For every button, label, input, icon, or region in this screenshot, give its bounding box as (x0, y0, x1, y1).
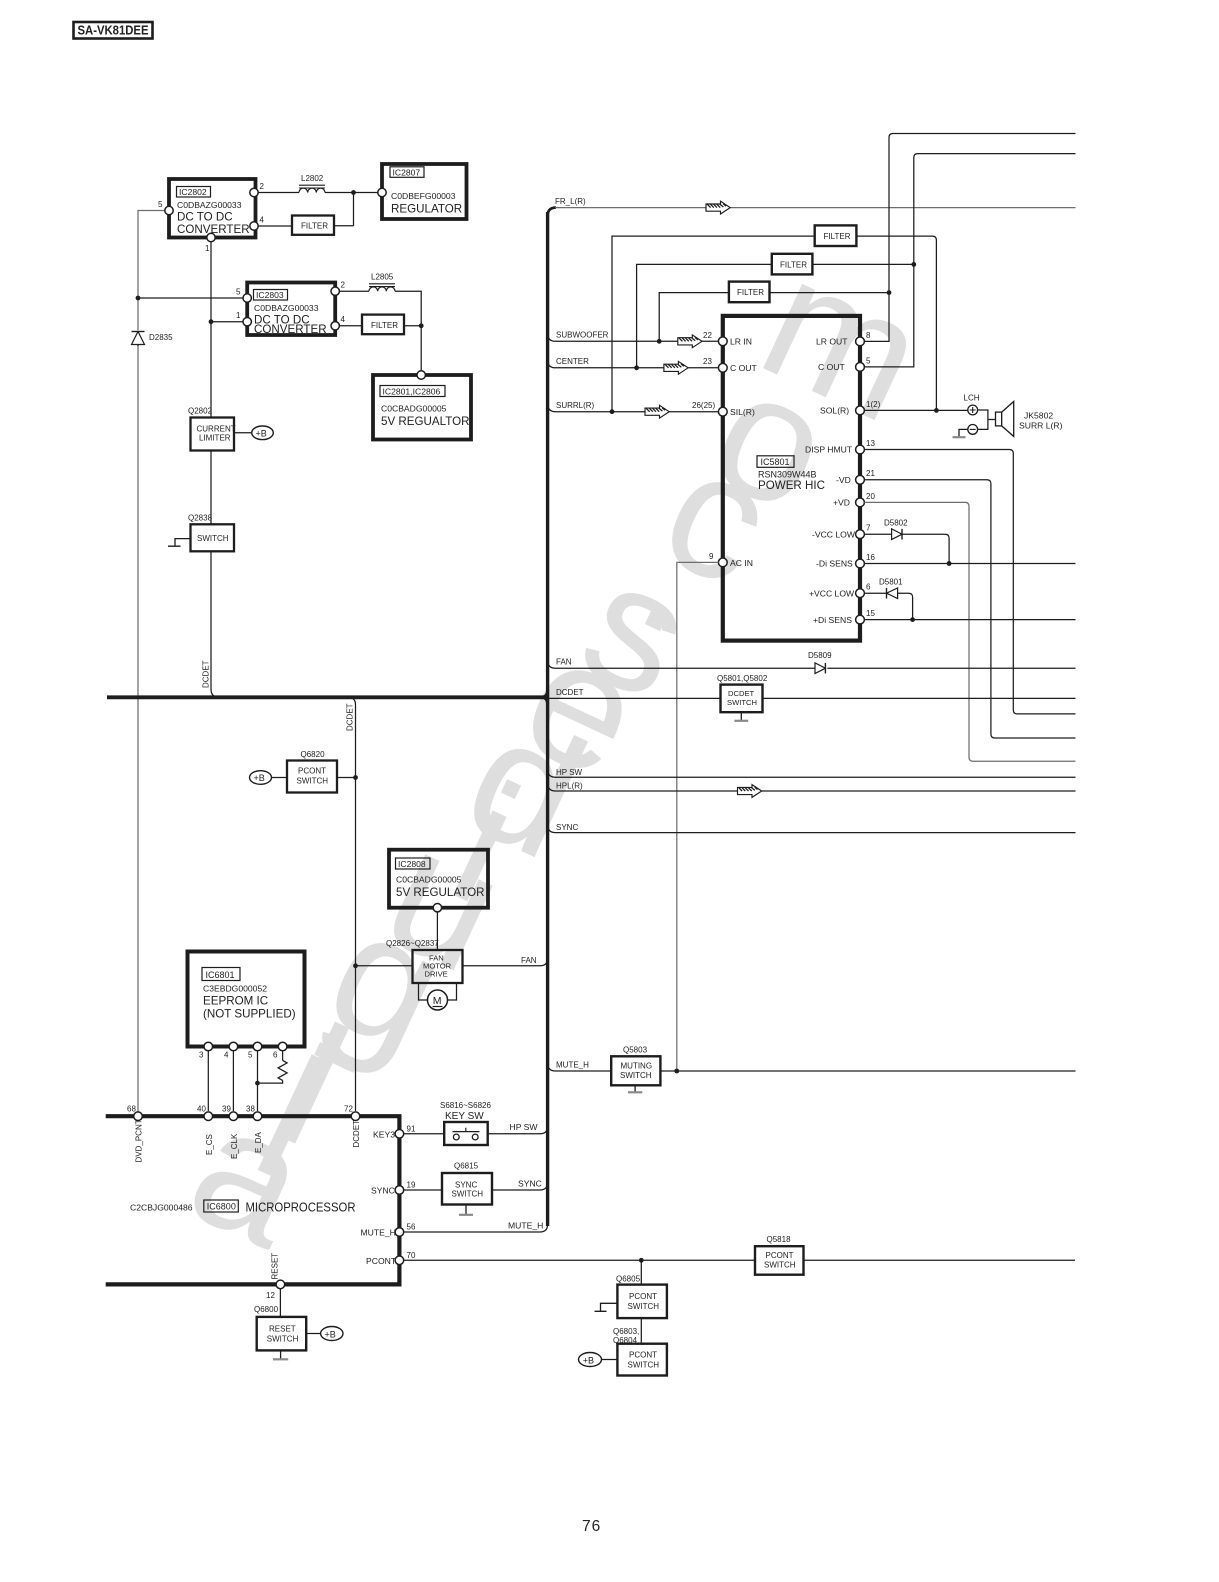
svg-text:PCONT: PCONT (298, 767, 326, 776)
svg-text:FAN: FAN (521, 956, 537, 965)
svg-text:C3EBDG000052: C3EBDG000052 (203, 984, 267, 994)
wire filter2 right to C OUT vertical (812, 263, 913, 265)
wire filter1 right down to SOL(R) line (856, 236, 938, 413)
svg-text:L2802: L2802 (301, 174, 324, 183)
svg-text:SYNC: SYNC (556, 823, 578, 832)
wire KEY3 pin91 to KEY SW (404, 1133, 445, 1135)
svg-text:DCDET: DCDET (352, 1120, 361, 1148)
svg-text:E_DA: E_DA (254, 1131, 263, 1153)
svg-text:SWITCH: SWITCH (267, 1335, 299, 1344)
pin 2 of IC2802 (250, 182, 265, 197)
svg-text:FILTER: FILTER (737, 288, 764, 297)
switch S6816~S6826 KEY SW (440, 1101, 491, 1145)
title box SA-VK81DEE (74, 22, 153, 39)
pin 8 LR OUT (816, 331, 871, 347)
svg-text:Q6805: Q6805 (616, 1275, 641, 1284)
pin 16 -Di SENS (816, 553, 875, 569)
svg-text:HPL(R): HPL(R) (556, 782, 583, 791)
svg-text:C0DBEFG00003: C0DBEFG00003 (391, 191, 456, 201)
pin 15 +Di SENS (813, 609, 875, 625)
svg-text:C0DBAZG00033: C0DBAZG00033 (177, 200, 242, 210)
svg-text:FILTER: FILTER (824, 232, 851, 241)
node junction on rail to IC2803 pin5 (136, 296, 244, 301)
wire filter3 left to SUBWOOFER line (657, 293, 729, 344)
svg-text:DISP HMUT: DISP HMUT (805, 445, 853, 455)
svg-text:C OUT: C OUT (730, 363, 757, 373)
diode D5802 (884, 519, 908, 540)
svg-text:SWITCH: SWITCH (620, 1071, 652, 1080)
svg-text:7: 7 (866, 524, 871, 533)
svg-text:HP SW: HP SW (556, 768, 583, 777)
svg-text:PCONT: PCONT (629, 1351, 657, 1360)
svg-text:LR IN: LR IN (730, 337, 752, 347)
svg-text:SWITCH: SWITCH (297, 777, 329, 786)
node terminal - (968, 425, 978, 435)
wire SYNC pin19 to SYNC SWITCH (404, 1189, 442, 1191)
svg-text:IC2801,IC2806: IC2801,IC2806 (383, 387, 441, 397)
svg-text:SOL(R): SOL(R) (820, 406, 849, 416)
op IC2807 REGULATOR (382, 164, 467, 219)
svg-text:+Di SENS: +Di SENS (813, 615, 852, 625)
pin 6 of IC6801 (273, 1042, 287, 1059)
svg-text:KEY3: KEY3 (373, 1129, 395, 1139)
svg-text:+B: +B (254, 773, 265, 783)
svg-text:PCONT: PCONT (629, 1292, 657, 1301)
svg-text:5: 5 (158, 200, 163, 209)
wire E_CS pin3 to microprocessor pin40 (207, 1051, 209, 1111)
svg-text:Q2826~Q2837: Q2826~Q2837 (386, 939, 439, 948)
wire HP SW net from KEY SW into trunk (488, 1122, 548, 1134)
svg-text:L2805: L2805 (371, 273, 394, 282)
svg-text:-VD: -VD (836, 475, 851, 485)
svg-text:IC6800: IC6800 (207, 1202, 236, 1212)
pin 1 of IC2802 (205, 233, 215, 253)
svg-text:DCDET: DCDET (346, 703, 355, 731)
svg-text:20: 20 (866, 492, 875, 501)
svg-text:C0CBADG00005: C0CBADG00005 (396, 875, 462, 885)
wire net MUTE_H (trunk to muting switch to right edge) (548, 1060, 1076, 1071)
svg-text:C0DBAZG00033: C0DBAZG00033 (254, 303, 319, 313)
wire IC2802 pin4 to FILTER (258, 225, 292, 227)
power node +B at reset switch (306, 1327, 343, 1341)
svg-text:9: 9 (709, 552, 714, 561)
transistor Q5803 MUTING SWITCH (611, 1046, 660, 1086)
cable arrow on SUBWOOFER (678, 335, 702, 348)
svg-text:23: 23 (703, 357, 712, 366)
wire PCONT junction down to Q6805 (640, 1260, 642, 1284)
svg-text:Q6803,: Q6803, (613, 1327, 639, 1336)
inductor L2802 (299, 174, 325, 193)
op IC2802 DC TO DC CONVERTER (169, 179, 256, 238)
svg-text:C0CBADG00005: C0CBADG00005 (381, 404, 447, 414)
wire pin12 to reset switch (279, 1289, 281, 1317)
svg-text:SURRL(R): SURRL(R) (556, 401, 595, 410)
svg-text:AC IN: AC IN (730, 558, 753, 568)
power node +B at Q6820 (250, 771, 288, 785)
svg-text:M: M (433, 995, 442, 1007)
wire DISP HMUT net (pin13 to right edge) (864, 450, 1075, 714)
speaker JK5802 SURR L(R) (996, 402, 1063, 437)
svg-text:39: 39 (222, 1105, 231, 1114)
svg-text:RESET: RESET (269, 1325, 296, 1334)
svg-text:FAN: FAN (556, 657, 572, 666)
svg-text:-Di SENS: -Di SENS (816, 559, 853, 569)
wire FR_L(R) entry curve at trunk top (548, 208, 556, 216)
wire net SYNC (trunk to right edge) (548, 823, 1076, 832)
svg-text:PCONT: PCONT (766, 1251, 794, 1260)
svg-text:Q6800: Q6800 (254, 1305, 279, 1314)
svg-text:+B: +B (256, 429, 267, 439)
svg-text:DC TO DC: DC TO DC (177, 211, 233, 224)
svg-text:RESET: RESET (271, 1253, 280, 1280)
wire L2805 right and down to junction and 5V regulator (395, 291, 424, 371)
wire pin6 to diode D5801 (864, 592, 886, 594)
svg-text:FR_L(R): FR_L(R) (555, 197, 586, 206)
net label DCDET (vertical, at Q2838 wire) (202, 660, 211, 688)
inductor L2805 (369, 273, 395, 292)
pin 70 PCONT (366, 1251, 416, 1266)
ground at DCDET switch (740, 712, 742, 720)
op IC2803 DC TO DC CONVERTER (247, 283, 335, 336)
pin 5 of IC6801 (248, 1042, 262, 1059)
filter block (surround channel) (815, 225, 857, 246)
svg-text:Q5801,Q5802: Q5801,Q5802 (717, 674, 768, 683)
svg-text:2: 2 (260, 182, 265, 191)
pin 4 of IC6801 (224, 1042, 238, 1059)
svg-text:22: 22 (703, 331, 712, 340)
ground at reset switch (280, 1350, 282, 1359)
transistor Q6820 PCONT SWITCH (287, 750, 337, 793)
svg-text:E_CS: E_CS (205, 1134, 214, 1155)
pin 1(2) SOL(R) (820, 400, 881, 416)
svg-text:PCONT: PCONT (366, 1256, 397, 1266)
op IC6800 MICROPROCESSOR outline (106, 1116, 400, 1284)
svg-text:Q5818: Q5818 (767, 1235, 792, 1244)
filter block (center channel) (772, 254, 813, 275)
ground at speaker - terminal (959, 429, 968, 437)
pin 40 E_CS (197, 1105, 213, 1121)
svg-text:5: 5 (866, 356, 871, 365)
svg-text:Q6820: Q6820 (301, 750, 326, 759)
wire net FR_L(R) (555, 207, 1076, 209)
svg-text:56: 56 (407, 1223, 416, 1232)
wire -VD net (pin21 to right edge) (864, 480, 1075, 738)
svg-text:IC5801: IC5801 (761, 457, 790, 467)
transistors Q5801,Q5802 DCDET SWITCH (717, 674, 768, 712)
power node +B at current limiter (234, 426, 273, 440)
svg-text:1: 1 (236, 311, 241, 320)
svg-text:21: 21 (866, 469, 875, 478)
junction AC IN net on MUTE_H line (674, 1069, 679, 1074)
pin 23 C OUT (703, 357, 757, 373)
svg-text:LR OUT: LR OUT (816, 337, 848, 347)
pin 4 of IC2803 (331, 315, 346, 330)
wire bus to trunk joint (541, 690, 548, 704)
svg-text:D5809: D5809 (808, 651, 832, 660)
svg-text:SWITCH: SWITCH (628, 1302, 660, 1311)
svg-text:5V REGULATOR: 5V REGULATOR (396, 886, 484, 899)
wire PCONT net from pin70 to Q5818 and right edge (404, 1258, 1075, 1263)
pin 26(25) SIL(R) (692, 401, 755, 417)
svg-text:SWITCH: SWITCH (727, 698, 757, 707)
op IC6801 EEPROM IC (188, 952, 305, 1047)
wire L2802 to IC2807 with junction (325, 190, 378, 226)
svg-text:SURR L(R): SURR L(R) (1019, 421, 1063, 431)
svg-text:12: 12 (266, 1291, 275, 1300)
svg-text:DCDET: DCDET (202, 660, 211, 688)
pin 56 MUTE_H (361, 1223, 416, 1238)
svg-text:FILTER: FILTER (301, 222, 328, 231)
svg-text:FILTER: FILTER (780, 260, 807, 269)
pin 68 DVD_PCNT (127, 1105, 142, 1121)
wire signal trunk (vertical bus) (546, 212, 549, 1226)
svg-text:Q2838: Q2838 (188, 514, 213, 523)
svg-text:MUTE_H: MUTE_H (361, 1228, 396, 1238)
wire Q6805 to Q6803/Q6804 (640, 1318, 642, 1344)
svg-text:SUBWOOFER: SUBWOOFER (556, 331, 609, 340)
svg-text:76: 76 (582, 1518, 601, 1535)
svg-text:IC2802: IC2802 (179, 187, 207, 197)
resistor R6801 (pull-up on E_DA) (260, 1051, 287, 1083)
wire fan drive to DCDET branch junction (353, 963, 412, 968)
svg-text:JK5802: JK5802 (1024, 411, 1053, 421)
svg-text:Q5803: Q5803 (623, 1046, 648, 1055)
svg-text:+B: +B (325, 1329, 336, 1339)
transistor Q2802 CURRENT LIMITER (188, 407, 236, 451)
ground at muting switch (634, 1085, 636, 1092)
svg-text:DCDET: DCDET (556, 688, 584, 697)
node LCH terminal + (964, 394, 980, 415)
svg-text:CURRENT: CURRENT (197, 425, 236, 434)
transistor Q6815 SYNC SWITCH (442, 1162, 492, 1205)
pin 7 -VCC LOW (812, 524, 871, 540)
svg-text:SWITCH: SWITCH (764, 1261, 796, 1270)
svg-text:LCH: LCH (964, 394, 980, 403)
pin 39 E_CLK (222, 1105, 238, 1121)
wire FILTER to junction (334, 225, 354, 227)
svg-text:SYNC: SYNC (371, 1186, 395, 1196)
wire terminals to speaker (978, 410, 996, 429)
svg-text:3: 3 (199, 1051, 204, 1060)
pin 38 E_DA (246, 1105, 262, 1121)
pin 5 of IC2803 (236, 288, 251, 303)
transistor Q6800 RESET SWITCH (254, 1305, 306, 1350)
pin 6 +VCC LOW (809, 583, 871, 599)
wire IC2802 pin1 down to current limiter, junction to IC2803 pin1 (209, 242, 243, 418)
ground at SYNC SWITCH (465, 1205, 467, 1215)
wire FILTER to junction (404, 325, 421, 327)
svg-text:DRIVE: DRIVE (425, 970, 448, 979)
wire AC IN net (pin9 down to MUTE_H junction) (677, 562, 719, 1071)
pin of IC2808 (433, 904, 441, 912)
pin 5 C OUT (818, 356, 871, 372)
wire IC2803 pin2 to L2805 (339, 290, 369, 292)
svg-text:SA-VK81DEE: SA-VK81DEE (78, 23, 149, 38)
svg-text:Q2802: Q2802 (188, 407, 213, 416)
wire DCDET branch down to Q6820/microprocessor (348, 697, 356, 1111)
wire net SURRL(R) (548, 401, 719, 412)
svg-text:5V REGUALTOR: 5V REGUALTOR (381, 415, 469, 428)
svg-text:POWER HIC: POWER HIC (758, 479, 825, 492)
svg-text:40: 40 (197, 1105, 206, 1114)
motor M5801 (419, 983, 457, 1010)
filter block (IC2802 output) (292, 216, 334, 235)
control input stub of Q2838 (168, 539, 191, 547)
svg-text:MUTING: MUTING (621, 1062, 653, 1071)
svg-text:70: 70 (407, 1251, 416, 1260)
diode D5809 (808, 651, 832, 674)
wire current limiter to switch Q2838 (210, 451, 212, 525)
svg-text:19: 19 (407, 1181, 416, 1190)
svg-text:MUTE_H: MUTE_H (556, 1060, 589, 1069)
svg-text:15: 15 (866, 609, 875, 618)
svg-text:IC2803: IC2803 (256, 290, 284, 300)
svg-text:5: 5 (248, 1051, 253, 1060)
svg-text:6: 6 (273, 1051, 278, 1060)
svg-text:Q6815: Q6815 (454, 1162, 479, 1171)
wire IC2803 pin4 to FILTER (339, 325, 362, 327)
pin 91 KEY3 (373, 1125, 416, 1140)
wire DCDET bus (thick) (107, 695, 543, 699)
svg-text:16: 16 (866, 553, 875, 562)
pin 9 AC IN (709, 552, 753, 568)
svg-text:D5802: D5802 (884, 519, 908, 528)
wire Q2838 to DCDET bus (211, 551, 219, 697)
pin 13 DISP HMUT (805, 439, 875, 455)
filter block (IC2803 output) (362, 315, 404, 335)
wire MUTE_H net from pin56 into trunk (404, 1220, 548, 1232)
svg-text:SYNC: SYNC (455, 1181, 477, 1190)
svg-text:+VCC LOW: +VCC LOW (809, 588, 855, 598)
wire net SUBWOOFER (548, 331, 719, 342)
pin 4 of IC2802 (250, 216, 265, 231)
svg-text:MUTE_H: MUTE_H (508, 1220, 543, 1230)
pin 20 +VD (833, 492, 875, 508)
fan motor drive block (413, 950, 463, 983)
svg-text:C2CBJG000486: C2CBJG000486 (130, 1203, 193, 1213)
svg-text:DCDET: DCDET (728, 689, 755, 698)
wire Q6820 to DCDET branch junction (337, 775, 358, 780)
power node +B at Q6803/Q6804 (579, 1353, 618, 1367)
pin of IC2801/IC2806 (417, 371, 425, 379)
svg-text:SWITCH: SWITCH (197, 534, 229, 543)
cable arrow on FR_L(R) (706, 201, 730, 214)
wire filter2 left to CENTER line (634, 264, 772, 370)
svg-text:SIL(R): SIL(R) (730, 407, 755, 417)
wire filter1 left to SURRL line (610, 236, 815, 414)
svg-text:DVD_PCNT: DVD_PCNT (135, 1119, 144, 1162)
svg-text:C OUT: C OUT (818, 362, 845, 372)
wire +VD net (pin20 to right edge) (864, 502, 1075, 761)
svg-text:5: 5 (236, 288, 241, 297)
svg-text:EEPROM IC: EEPROM IC (203, 995, 268, 1008)
wire +Di SENS net (pin15 to right edge) (864, 619, 1075, 621)
svg-text:D5801: D5801 (879, 578, 903, 587)
wire E_CLK pin4 to microprocessor pin39 (232, 1051, 234, 1111)
svg-text:8: 8 (866, 331, 871, 340)
svg-text:REGULATOR: REGULATOR (391, 203, 462, 216)
svg-text:26(25): 26(25) (692, 401, 715, 410)
svg-text:+VD: +VD (833, 498, 850, 508)
svg-text:S6816~S6826: S6816~S6826 (440, 1101, 491, 1110)
op IC2801,IC2806 5V REGUALTOR (373, 375, 471, 440)
svg-text:HP SW: HP SW (510, 1122, 539, 1132)
wire filter3 right to LR OUT vertical (770, 292, 890, 294)
cable arrow on CENTER (664, 361, 688, 374)
svg-text:E_CLK: E_CLK (230, 1133, 239, 1159)
svg-text:38: 38 (246, 1105, 255, 1114)
pin 1 of IC2803 (236, 311, 251, 326)
svg-text:72: 72 (344, 1105, 353, 1114)
wire -Di SENS net (pin16 to right edge) (864, 563, 1075, 565)
svg-text:2: 2 (341, 281, 346, 290)
watermark all-guides.com (164, 220, 952, 1285)
pin 19 SYNC (371, 1181, 416, 1196)
svg-text:IC2808: IC2808 (398, 859, 426, 869)
wire FAN net from fan drive into trunk (463, 958, 548, 966)
transistor Q6805 PCONT SWITCH (616, 1275, 667, 1319)
op IC2808 5V REGULATOR (389, 850, 488, 908)
svg-text:CENTER: CENTER (556, 357, 589, 366)
transistor Q6803/Q6804 PCONT SWITCH (617, 1344, 667, 1376)
pin 5 of IC2802 (158, 200, 173, 215)
wire SOL(R) to speaker (864, 409, 967, 411)
net label DCDET (vertical, at branch) (346, 703, 355, 731)
wire net FAN (trunk to right edge) (548, 657, 1076, 668)
microprocessor name label (130, 1200, 356, 1215)
svg-text:LIMITER: LIMITER (199, 434, 231, 443)
svg-text:13: 13 (866, 439, 875, 448)
wire net CENTER (548, 357, 719, 368)
pin 12 RESET (266, 1280, 285, 1300)
wire net HP SW (trunk to right edge) (548, 768, 1076, 777)
svg-text:CONVERTER: CONVERTER (254, 323, 327, 336)
svg-text:4: 4 (224, 1051, 229, 1060)
wire LR OUT net (pin8 to top right) (864, 134, 1075, 342)
wire net HPL(R) (trunk to right edge) (548, 782, 1076, 791)
transistors Q6803,Q6804 labels (613, 1327, 639, 1345)
svg-text:FILTER: FILTER (371, 321, 398, 330)
svg-text:1(2): 1(2) (866, 400, 881, 409)
svg-text:D2835: D2835 (149, 333, 173, 342)
svg-text:SYNC: SYNC (518, 1179, 542, 1189)
wire C OUT net (pin5 to top right) (864, 154, 1075, 367)
diode D2835 (132, 332, 174, 347)
pin of IC2807 (378, 188, 386, 196)
svg-text:1: 1 (205, 244, 210, 253)
wire SYNC net from SYNC SWITCH into trunk (492, 1179, 548, 1191)
svg-text:SWITCH: SWITCH (452, 1190, 484, 1199)
pin 72 DCDET (344, 1105, 360, 1121)
transistor Q5818 PCONT SWITCH (755, 1235, 804, 1275)
svg-text:(NOT SUPPLIED): (NOT SUPPLIED) (203, 1008, 296, 1021)
op IC5801 POWER HIC (723, 316, 860, 641)
wire IC2802 pin2 to L2802 (258, 192, 299, 194)
pin 22 LR IN (703, 331, 752, 347)
svg-text:MICROPROCESSOR: MICROPROCESSOR (246, 1201, 356, 1215)
pin 2 of IC2803 (331, 281, 346, 296)
svg-text:6: 6 (866, 583, 871, 592)
svg-text:SWITCH: SWITCH (628, 1361, 660, 1370)
wire E_DA pin5 to microprocessor pin38 with junction (255, 1051, 260, 1111)
wire net DCDET (trunk to DCDET switch to right edge) (549, 688, 1076, 699)
wire +B rail from IC2802 pin5 down to microprocessor pin 68 (DVD_PCNT) (138, 211, 166, 1112)
svg-text:KEY SW: KEY SW (445, 1111, 484, 1122)
control input stub of Q6805 (595, 1303, 618, 1311)
svg-text:4: 4 (341, 315, 346, 324)
svg-text:68: 68 (127, 1105, 136, 1114)
diode D5801 (879, 578, 903, 599)
